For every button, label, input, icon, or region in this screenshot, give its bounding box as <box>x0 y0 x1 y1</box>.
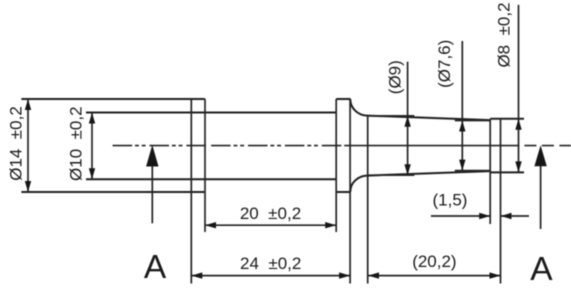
svg-text:A: A <box>530 251 553 288</box>
arrowhead (20,2) right <box>490 272 501 278</box>
svg-text:Ø8 ±0,2: Ø8 ±0,2 <box>495 2 514 67</box>
flange top edge <box>336 98 350 100</box>
shaft right end face / 20,2 extension line <box>500 119 502 284</box>
svg-text:20 ±0,2: 20 ±0,2 <box>240 204 301 223</box>
Ø8 pin bottom edge <box>490 171 524 173</box>
vertical edge / 24 extension line through shaft <box>190 99 192 284</box>
arrowhead (1,5) left <box>479 213 490 219</box>
arrowhead Ø8 bottom <box>515 161 521 172</box>
shaft Ø14 cylinder top edge <box>21 98 205 100</box>
arrowhead (1,5) right <box>501 213 512 219</box>
arrowhead 24 right <box>339 272 350 278</box>
flange right face / 24 extension line <box>349 99 351 284</box>
svg-text:(Ø9): (Ø9) <box>385 60 404 94</box>
dimension line Ø8 <box>518 5 520 173</box>
shaft Ø10 cylinder top edge <box>86 112 336 114</box>
dimension line (1,5) left part <box>431 215 490 217</box>
centerline right dashed part <box>524 145 571 147</box>
shaft Ø14 cylinder bottom edge <box>21 191 205 193</box>
flange bottom edge <box>336 191 350 193</box>
taper end face / 1,5 extension line <box>489 119 491 224</box>
taper start / 20,2 extension line <box>367 116 369 284</box>
arrowhead 24 left <box>191 272 202 278</box>
extension line (Ø7,6) top <box>455 120 490 122</box>
svg-text:Ø14 ±0,2: Ø14 ±0,2 <box>7 106 26 181</box>
arrowhead (Ø9) top <box>404 116 410 127</box>
section arrowhead A left <box>146 145 158 167</box>
arrowhead Ø10 top <box>89 113 95 124</box>
arrowhead (Ø9) bottom <box>404 164 410 175</box>
dimension line Ø10 <box>91 113 93 180</box>
arrowhead (20,2) left <box>368 272 379 278</box>
flange bottom fillet <box>350 176 367 192</box>
extension line (Ø7,6) bottom <box>455 170 490 172</box>
extension line (Ø9) top <box>368 115 415 117</box>
svg-text:(20,2): (20,2) <box>412 252 456 271</box>
taper top edge <box>368 116 491 121</box>
svg-text:(Ø7,6): (Ø7,6) <box>435 40 454 88</box>
flange left face / 20 extension line <box>335 99 337 232</box>
arrowhead (Ø7,6) top <box>459 121 465 132</box>
arrowhead Ø10 bottom <box>89 168 95 179</box>
svg-text:24 ±0,2: 24 ±0,2 <box>240 254 301 273</box>
svg-text:(1,5): (1,5) <box>433 190 468 209</box>
centerline middle dashed part <box>211 145 345 147</box>
centerline left part <box>113 145 206 147</box>
Ø8 pin top edge <box>490 118 524 120</box>
centerline long solid part <box>345 145 519 147</box>
svg-text:Ø10 ±0,2: Ø10 ±0,2 <box>67 106 86 181</box>
dimension line (20,2) <box>368 275 501 277</box>
svg-text:A: A <box>144 249 167 286</box>
arrowhead 20 left <box>205 222 216 228</box>
arrowhead Ø8 top <box>515 119 521 130</box>
arrowhead Ø14 top <box>25 99 31 110</box>
dimension line Ø14 (left face) <box>27 99 29 192</box>
taper bottom edge <box>368 171 491 176</box>
extension line (Ø9) bottom <box>368 174 415 176</box>
shaft Ø14 right face / 20 extension line <box>204 99 206 232</box>
dimension line (Ø7,6) <box>461 41 463 171</box>
arrowhead Ø14 bottom <box>25 181 31 192</box>
dimension line 24 <box>191 275 350 277</box>
dimension line 20 <box>205 224 336 226</box>
dimension line (1,5) right part <box>501 215 530 217</box>
section arrow A right shaft <box>540 166 542 229</box>
arrowhead 20 right <box>325 222 336 228</box>
shaft Ø10 cylinder bottom edge <box>86 178 336 180</box>
dimension line (Ø9) <box>407 62 409 176</box>
flange top fillet <box>350 99 367 115</box>
section arrowhead A right <box>534 145 546 166</box>
section arrow A left shaft <box>151 165 153 223</box>
arrowhead (Ø7,6) bottom <box>459 160 465 171</box>
